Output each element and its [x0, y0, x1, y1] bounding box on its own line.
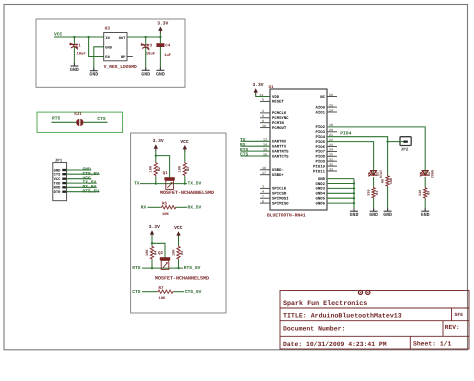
- resistor R1 330: [366, 187, 379, 199]
- net label RTS: [52, 115, 61, 121]
- wire PIO5 to LED D2: [327, 138, 374, 169]
- svg-text:GND3: GND3: [316, 187, 326, 192]
- svg-text:UARTCTS: UARTCTS: [272, 154, 289, 159]
- svg-text:TITLE: ArduinoBluetoothMatev13: TITLE: ArduinoBluetoothMatev13: [283, 313, 402, 320]
- junction R4/RTS: [151, 267, 153, 269]
- junction R2/TX: [155, 182, 157, 184]
- svg-text:TX: TX: [134, 181, 140, 187]
- wire junction to JP2 pin: [388, 141, 400, 143]
- net label RTS_5V: [184, 265, 201, 271]
- svg-text:SPIMOSI: SPIMOSI: [272, 197, 289, 202]
- svg-text:RESET: RESET: [272, 100, 284, 105]
- power 3.3V at U1 VDD: [253, 82, 264, 95]
- enclosure box: level shifter section: [131, 133, 226, 313]
- ground: [156, 67, 165, 77]
- wire C1 to ground: [73, 49, 75, 66]
- svg-text:REV:: REV:: [445, 324, 460, 331]
- capacitor C3 10uF: [141, 43, 156, 57]
- svg-text:R9: R9: [426, 191, 431, 195]
- svg-text:21: 21: [329, 133, 333, 138]
- svg-text:4: 4: [262, 190, 264, 195]
- wire UART net TX + label: [240, 137, 270, 143]
- svg-text:JP1: JP1: [55, 159, 63, 164]
- value MOSFET-NCHANNELSMD: [160, 190, 214, 196]
- net label PIO4: [340, 131, 351, 137]
- wires U1 GND pins to bus: [327, 179, 354, 204]
- svg-text:25: 25: [329, 153, 333, 158]
- svg-text:CTS: CTS: [240, 152, 249, 158]
- svg-text:9: 9: [262, 119, 264, 124]
- wire RTS rail: [142, 267, 183, 269]
- svg-text:CTS: CTS: [97, 116, 106, 122]
- ground: [383, 208, 392, 218]
- capacitor C4 1uF: [156, 43, 171, 58]
- wire R4 to RTS rail: [151, 260, 153, 268]
- svg-text:RXD: RXD: [54, 186, 62, 191]
- net label TX: [134, 181, 140, 187]
- wire JP1 GND + net label GND: [67, 167, 92, 173]
- svg-text:32: 32: [329, 162, 333, 167]
- svg-text:GND: GND: [350, 212, 359, 218]
- junction at C3: [145, 36, 147, 38]
- svg-text:R7: R7: [159, 286, 165, 291]
- svg-text:Q1: Q1: [163, 171, 169, 176]
- net label RX: [141, 204, 147, 210]
- resistor R8 10K: [380, 175, 393, 187]
- svg-text:10: 10: [262, 124, 266, 129]
- svg-text:PCMCLK: PCMCLK: [272, 111, 287, 116]
- title text Date: [283, 341, 387, 348]
- title text REV: [445, 324, 460, 331]
- svg-text:10K: 10K: [389, 177, 394, 184]
- svg-text:13: 13: [263, 138, 267, 143]
- svg-text:3: 3: [262, 185, 264, 190]
- svg-text:3.3V: 3.3V: [149, 224, 160, 230]
- wire 3.3V to VDD pin 11: [256, 94, 270, 97]
- wire JP1 RTS_5V + net label RTS_5V: [67, 188, 100, 194]
- svg-text:GND5: GND5: [316, 197, 326, 202]
- junctions GND bus: [353, 182, 355, 204]
- wire JP1 TX_5V + net label TX_5V: [67, 180, 97, 186]
- svg-text:8: 8: [262, 199, 264, 204]
- wire 3.3V stem A: [155, 150, 157, 156]
- svg-text:Document Number:: Document Number:: [283, 326, 345, 333]
- svg-text:Date: 10/31/2009 4:23:41 PM: Date: 10/31/2009 4:23:41 PM: [283, 341, 387, 348]
- svg-text:10uF: 10uF: [146, 51, 156, 56]
- wire U3 GND pin to ground: [94, 47, 104, 71]
- wire RTS to SJ1: [52, 121, 77, 123]
- enclosure box: regulator section: [36, 19, 185, 87]
- svg-text:GND: GND: [421, 212, 430, 218]
- svg-text:STAT: STAT: [379, 170, 384, 178]
- svg-text:PIO3: PIO3: [316, 130, 326, 135]
- svg-text:V_REG_LDOSMD: V_REG_LDOSMD: [104, 64, 137, 70]
- svg-text:MOSFET-NCHANNELSMD: MOSFET-NCHANNELSMD: [160, 190, 214, 196]
- svg-text:10K: 10K: [149, 165, 154, 172]
- svg-text:RTS: RTS: [52, 115, 61, 121]
- title text Document Number: [283, 326, 345, 333]
- svg-text:USBD+: USBD+: [272, 173, 284, 178]
- svg-text:C3: C3: [147, 44, 153, 49]
- resistor R7 10K: [157, 286, 173, 301]
- pin number 11: [260, 93, 264, 98]
- svg-text:7: 7: [262, 195, 264, 200]
- svg-text:MOSFET-NCHANNELSMD: MOSFET-NCHANNELSMD: [155, 276, 209, 282]
- svg-text:GND: GND: [89, 72, 98, 78]
- wire C4 to ground: [159, 47, 161, 70]
- svg-text:10K: 10K: [178, 165, 183, 172]
- junction gate branch Q2: [151, 242, 153, 244]
- svg-text:25: 25: [329, 103, 333, 108]
- wire C3 to ground: [145, 50, 147, 71]
- svg-text:2: 2: [262, 109, 264, 114]
- ground: [89, 68, 98, 78]
- svg-text:PIO4: PIO4: [316, 135, 326, 140]
- svg-text:SPICSB: SPICSB: [272, 192, 287, 197]
- pin stub BP: [127, 56, 133, 58]
- svg-text:DTR: DTR: [54, 190, 62, 195]
- svg-text:CTS: CTS: [54, 173, 62, 178]
- svg-text:TX_5V: TX_5V: [188, 181, 202, 187]
- wire JP1 VCC + net label VCC: [67, 175, 92, 181]
- title text Spark Fun Electronics: [283, 300, 367, 308]
- LED D2 STAT: [368, 169, 384, 178]
- svg-text:PIO11: PIO11: [313, 169, 325, 174]
- connector JP2: [400, 137, 411, 153]
- svg-text:15: 15: [263, 147, 267, 152]
- svg-text:SPIMISO: SPIMISO: [272, 201, 289, 206]
- wire D2 to R1: [373, 177, 375, 187]
- ground: [421, 208, 430, 218]
- title text Sheet: [413, 340, 452, 347]
- svg-text:U1: U1: [269, 85, 275, 90]
- junction at C4/3.3V: [159, 36, 161, 38]
- wire PIO4 to JP2: [327, 133, 388, 142]
- wire U3 OUT rail: [127, 36, 160, 38]
- svg-text:NC: NC: [320, 95, 325, 100]
- svg-text:11: 11: [260, 93, 264, 98]
- svg-text:GND: GND: [105, 45, 112, 50]
- svg-text:17: 17: [262, 171, 266, 176]
- wire VCC to U3 IN: [54, 36, 104, 38]
- svg-text:R8: R8: [380, 179, 385, 183]
- wire to C4: [159, 37, 161, 43]
- wire R8 to ground: [387, 187, 389, 211]
- svg-text:16: 16: [263, 152, 267, 157]
- svg-text:PIO7: PIO7: [316, 150, 326, 155]
- svg-text:GND: GND: [70, 67, 79, 73]
- svg-text:RTS_5V: RTS_5V: [184, 265, 201, 271]
- svg-text:UARTTX: UARTTX: [272, 145, 287, 150]
- junction JP2 net: [386, 140, 388, 142]
- wire Q1 gate: [156, 156, 170, 178]
- svg-text:PCMIN: PCMIN: [272, 121, 284, 126]
- wire VCC to R3: [184, 151, 186, 162]
- net label VCC: [54, 32, 63, 38]
- svg-text:R1: R1: [375, 191, 380, 195]
- svg-text:24: 24: [329, 108, 333, 113]
- svg-text:JP2: JP2: [401, 147, 409, 152]
- svg-text:31: 31: [329, 158, 333, 163]
- wire JP1 CTS_5V + net label CTS_5V: [67, 171, 100, 177]
- net label CTS: [132, 289, 141, 295]
- svg-text:14: 14: [263, 143, 267, 148]
- svg-text:RTS_5V: RTS_5V: [83, 188, 100, 194]
- svg-text:C1: C1: [76, 43, 82, 48]
- power 3.3V regulator output: [157, 20, 168, 33]
- svg-text:PIO9: PIO9: [316, 160, 326, 165]
- svg-text:GND: GND: [141, 71, 150, 77]
- junction EN branch: [87, 36, 89, 38]
- junction at C1: [73, 36, 75, 38]
- svg-text:33: 33: [329, 167, 333, 172]
- svg-text:R2: R2: [157, 167, 162, 171]
- svg-text:PCMOUT: PCMOUT: [272, 126, 287, 131]
- capacitor C1 10uF: [69, 42, 86, 57]
- connector JP1: [53, 159, 67, 201]
- svg-text:PIO5: PIO5: [316, 140, 326, 145]
- wire D1 to R9: [424, 177, 426, 187]
- wire R9 to ground: [424, 199, 426, 211]
- U1 left pin stubs and pin numbers: [260, 98, 270, 205]
- junction R3/TX: [184, 182, 186, 184]
- wire junction to R8: [387, 142, 389, 175]
- svg-text:GND: GND: [369, 212, 378, 218]
- solder jumper SJ1: [74, 112, 83, 126]
- svg-text:24: 24: [329, 148, 333, 153]
- svg-text:GND6: GND6: [316, 201, 326, 206]
- transistor Q1: [163, 171, 175, 189]
- svg-text:SFE: SFE: [455, 312, 464, 318]
- svg-text:EN: EN: [105, 55, 109, 60]
- svg-text:GND: GND: [318, 177, 326, 182]
- ground: [369, 208, 378, 218]
- resistor R2 10K: [149, 162, 163, 176]
- logo circles: [358, 290, 371, 295]
- wire TX rail: [140, 183, 187, 185]
- svg-text:R3: R3: [186, 167, 191, 171]
- svg-text:IN: IN: [105, 36, 109, 41]
- net label CTS_5V: [185, 289, 202, 295]
- svg-text:330: 330: [418, 190, 423, 196]
- svg-text:GND: GND: [383, 212, 392, 218]
- resistor R4 10K: [145, 246, 159, 260]
- title block: [280, 291, 469, 350]
- wire RX rail left: [148, 206, 161, 208]
- svg-text:VCC: VCC: [174, 225, 183, 231]
- transistor Q2: [158, 251, 170, 269]
- svg-text:RX_5V: RX_5V: [188, 204, 202, 210]
- wire VCC to R6: [178, 237, 180, 246]
- svg-text:VCC: VCC: [180, 139, 189, 145]
- wire R2 to TX rail: [155, 176, 157, 183]
- svg-text:22: 22: [329, 138, 333, 143]
- power VCC block B: [174, 225, 183, 238]
- svg-text:1uF: 1uF: [164, 53, 172, 58]
- enclosure box: solder jumper (green): [37, 112, 123, 132]
- wire to C1: [73, 37, 75, 42]
- net label RTS: [132, 265, 141, 271]
- svg-text:GND4: GND4: [316, 192, 326, 197]
- svg-text:3.3V: 3.3V: [157, 20, 168, 26]
- svg-text:VCC: VCC: [54, 177, 62, 182]
- svg-text:10K: 10K: [162, 212, 170, 217]
- svg-text:R6: R6: [180, 251, 185, 255]
- svg-text:PIO10: PIO10: [313, 164, 325, 169]
- wire CTS rail right: [174, 291, 184, 293]
- svg-text:10K: 10K: [171, 249, 176, 256]
- wire to C3: [145, 37, 147, 43]
- svg-text:3.3V: 3.3V: [253, 82, 264, 88]
- net label TX_5V: [188, 181, 202, 187]
- svg-text:USBD-: USBD-: [272, 168, 284, 173]
- power VCC block A: [180, 139, 189, 152]
- net label RX_5V: [188, 204, 202, 210]
- ground: [141, 67, 150, 77]
- voltage regulator U3 V_REG_LDOSMD: [104, 27, 137, 70]
- resistor R5 10K: [161, 201, 177, 216]
- svg-text:10K: 10K: [145, 249, 150, 256]
- bluetooth module U1 BLUETOOTH-RN41: [267, 85, 327, 218]
- svg-text:PIO6: PIO6: [316, 145, 326, 150]
- ground: [350, 208, 359, 218]
- svg-text:RX: RX: [141, 204, 147, 210]
- svg-text:OUT: OUT: [119, 36, 126, 41]
- svg-text:10uF: 10uF: [77, 52, 87, 57]
- wire 3.3V stem: [159, 33, 161, 38]
- wire RX rail right: [177, 206, 188, 208]
- wire UART net RTS + label: [240, 147, 270, 153]
- svg-text:SPICLK: SPICLK: [272, 187, 287, 192]
- svg-text:26: 26: [329, 93, 333, 98]
- svg-text:6: 6: [262, 114, 264, 119]
- value MOSFET-NCHANNELSMD: [155, 276, 209, 282]
- ground: [70, 63, 79, 73]
- power 3.3V block A: [153, 138, 164, 151]
- svg-text:AIO1: AIO1: [316, 110, 326, 115]
- wire R3 to TX rail: [184, 176, 186, 183]
- svg-text:Sheet: 1/1: Sheet: 1/1: [413, 340, 452, 347]
- wire GND bus vertical: [353, 179, 355, 212]
- svg-text:CTS: CTS: [132, 289, 141, 295]
- wire 3.3V to R4: [151, 243, 153, 245]
- svg-text:UARTRTS: UARTRTS: [272, 149, 289, 154]
- title text TITLE: [283, 313, 402, 320]
- svg-text:VDD: VDD: [272, 95, 280, 100]
- svg-text:19: 19: [329, 123, 333, 128]
- wire EN branch: [89, 37, 104, 57]
- wire R1 to ground: [373, 199, 375, 212]
- wire 3.3V stem B: [151, 236, 153, 244]
- svg-text:GND: GND: [156, 71, 165, 77]
- resistor R3 10K: [178, 162, 192, 176]
- svg-text:UARTRX: UARTRX: [272, 140, 287, 145]
- svg-text:BP: BP: [121, 55, 126, 60]
- wire R6 to RTS rail: [178, 260, 180, 268]
- svg-text:PCMSYNC: PCMSYNC: [272, 116, 289, 121]
- title text SFE: [455, 312, 464, 318]
- svg-text:18: 18: [262, 166, 266, 171]
- svg-text:U3: U3: [105, 27, 111, 32]
- wire PIO2 to LED D1: [327, 123, 425, 169]
- U1 right pin names: [313, 95, 325, 207]
- U1 right pin stubs and pin numbers: [327, 93, 337, 173]
- power 3.3V block B: [149, 224, 160, 237]
- svg-text:BLUETOOTH-RN41: BLUETOOTH-RN41: [267, 212, 306, 218]
- svg-text:AIO0: AIO0: [316, 105, 326, 110]
- LED D1 CONN: [420, 169, 436, 178]
- wire SJ1 to CTS: [84, 121, 108, 123]
- net label CTS: [97, 116, 106, 122]
- wire UART net RX + label: [240, 142, 270, 148]
- svg-text:330: 330: [366, 190, 371, 196]
- svg-text:5: 5: [262, 98, 264, 103]
- wire CTS rail left: [142, 291, 157, 293]
- wire UART net CTS + label: [240, 152, 270, 158]
- svg-text:23: 23: [329, 143, 333, 148]
- svg-text:20: 20: [329, 128, 333, 133]
- svg-text:CTS_5V: CTS_5V: [185, 289, 202, 295]
- svg-text:SJ1: SJ1: [74, 112, 82, 117]
- svg-text:3.3V: 3.3V: [153, 138, 164, 144]
- wire Q2 gate: [152, 243, 165, 257]
- svg-text:Spark Fun Electronics: Spark Fun Electronics: [283, 300, 367, 308]
- U1 left pin names: [272, 95, 289, 207]
- svg-text:10K: 10K: [159, 296, 167, 301]
- svg-text:R5: R5: [162, 201, 168, 206]
- svg-text:CONN: CONN: [430, 170, 435, 178]
- svg-text:RTS: RTS: [132, 265, 141, 271]
- svg-text:PIO2: PIO2: [316, 125, 326, 130]
- resistor R9 330: [418, 187, 431, 199]
- resistor R6 10K: [171, 246, 185, 260]
- svg-text:PIO8: PIO8: [316, 155, 326, 160]
- svg-text:PIO4: PIO4: [340, 131, 351, 137]
- wire 3.3V to R2: [155, 156, 157, 162]
- junction R6/RTS: [177, 267, 179, 269]
- svg-text:GND2: GND2: [316, 182, 326, 187]
- junction gate branch Q1: [155, 154, 157, 156]
- wire JP1 RX_5V + net label RX_5V: [67, 184, 97, 190]
- svg-text:Q2: Q2: [158, 251, 164, 256]
- svg-text:C4: C4: [165, 44, 171, 49]
